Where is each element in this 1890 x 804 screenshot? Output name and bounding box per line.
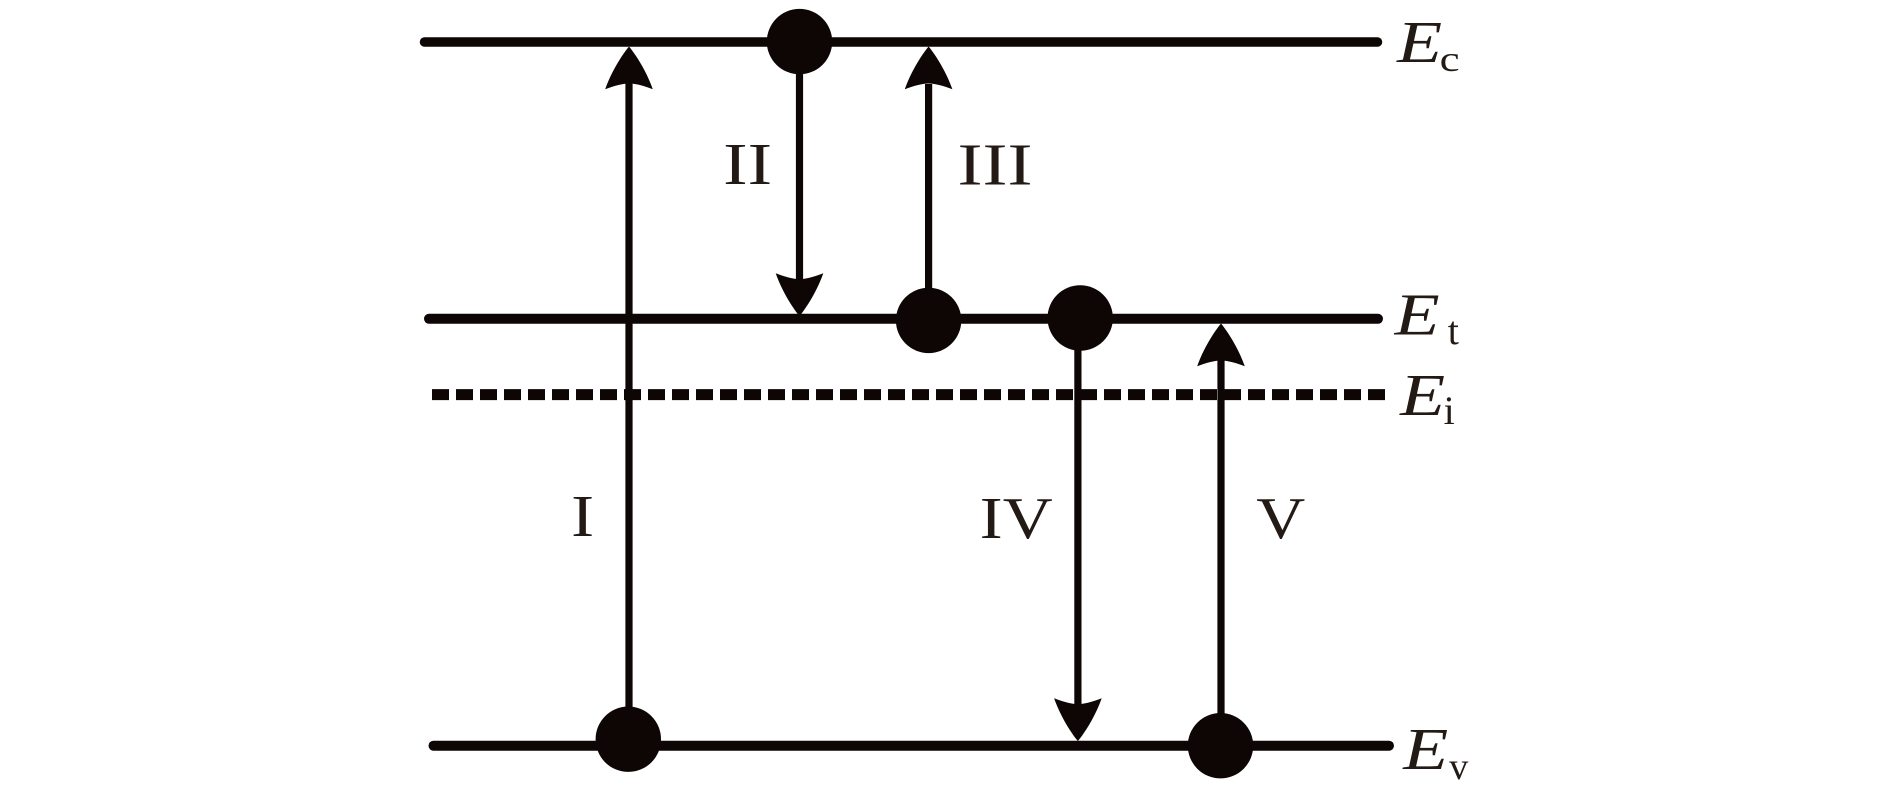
arrow V head (up) xyxy=(1197,324,1245,367)
electron circle on Ev (right) xyxy=(1188,713,1253,778)
arrow I head (up) xyxy=(605,47,653,90)
intrinsic level Ei (dashed) xyxy=(432,389,1385,400)
electron circle on Et (left) xyxy=(896,288,961,353)
arrow IV stem xyxy=(1074,318,1081,705)
conduction band level Ec xyxy=(425,37,1378,47)
svg-text:II: II xyxy=(723,131,772,197)
arrow IV head (down) xyxy=(1054,698,1102,741)
electron circle on Ec xyxy=(767,9,832,74)
svg-text:I: I xyxy=(571,483,594,549)
svg-text:i: i xyxy=(1444,388,1455,433)
svg-text:E: E xyxy=(1402,716,1448,782)
svg-text:E: E xyxy=(1393,282,1439,348)
svg-text:c: c xyxy=(1440,39,1460,79)
electron circle on Et (right) xyxy=(1048,285,1113,350)
svg-text:t: t xyxy=(1448,308,1459,353)
arrow II head (down) xyxy=(776,273,824,316)
arrow III stem xyxy=(925,84,932,320)
svg-text:v: v xyxy=(1449,746,1468,788)
arrow V stem xyxy=(1217,360,1224,745)
arrow III head (up) xyxy=(905,47,953,90)
svg-text:IV: IV xyxy=(980,485,1053,551)
svg-text:E: E xyxy=(1399,362,1445,428)
arrow II stem xyxy=(796,42,803,280)
svg-text:V: V xyxy=(1256,485,1305,551)
trap level Et xyxy=(429,314,1378,324)
svg-text:III: III xyxy=(958,132,1033,198)
valence band level Ev xyxy=(434,741,1390,751)
electron circle on Ev (left) xyxy=(596,707,661,772)
svg-text:E: E xyxy=(1396,9,1442,75)
arrow I stem xyxy=(625,82,632,739)
